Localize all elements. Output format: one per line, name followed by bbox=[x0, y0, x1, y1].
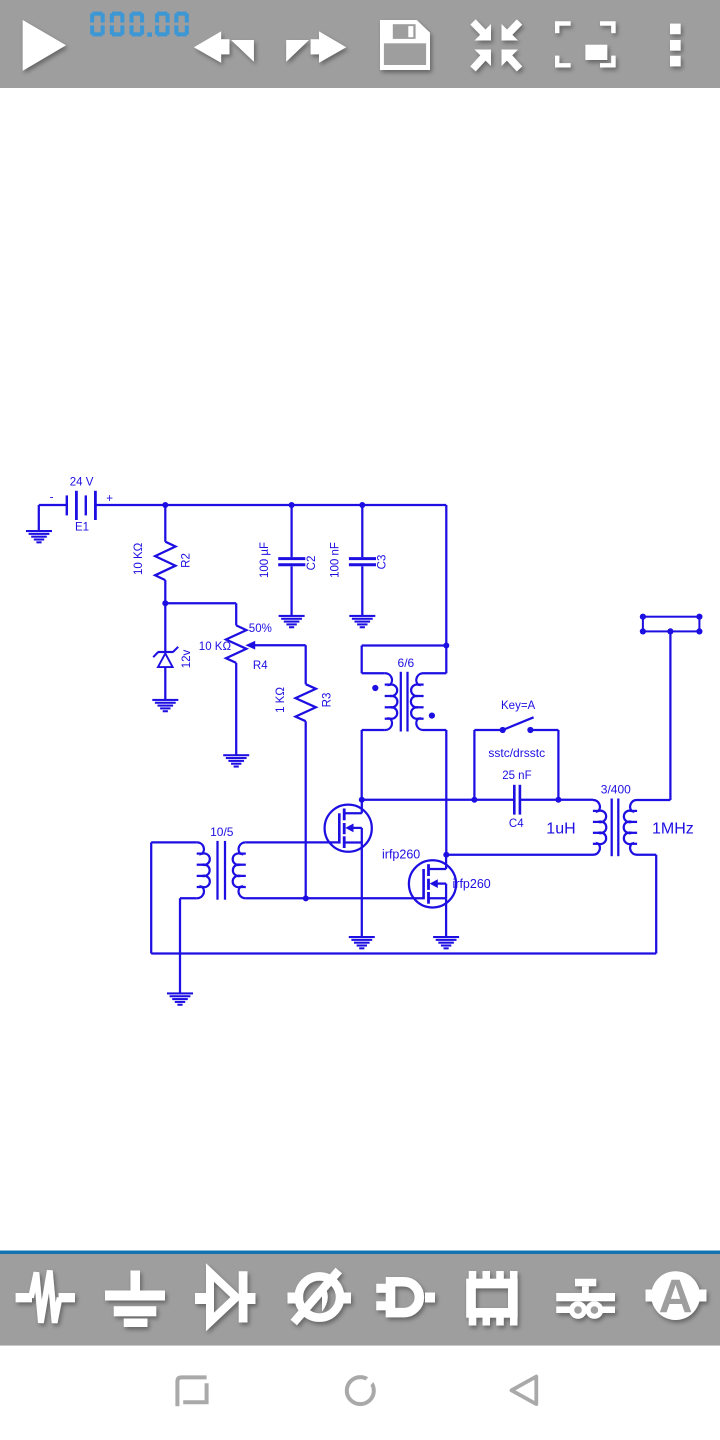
svg-text:10 KΩ: 10 KΩ bbox=[199, 641, 232, 653]
svg-text:100 nF: 100 nF bbox=[330, 542, 342, 578]
node switch right bbox=[555, 797, 561, 803]
palette resistor icon bbox=[16, 1271, 75, 1323]
svg-text:50%: 50% bbox=[249, 623, 272, 635]
transistor Q1 irfp260 bbox=[325, 805, 372, 852]
svg-text:24 V: 24 V bbox=[70, 477, 94, 489]
palette diode icon bbox=[195, 1271, 256, 1322]
node Q2 drain bbox=[443, 852, 449, 858]
svg-text:R3: R3 bbox=[321, 693, 333, 708]
nav recents button bbox=[177, 1377, 206, 1406]
zener diode D1 12v bbox=[164, 603, 166, 652]
svg-text:A: A bbox=[659, 1270, 693, 1323]
svg-text:100 µF: 100 µF bbox=[259, 542, 271, 578]
resistor R2 10 KΩ bbox=[164, 505, 166, 542]
collapse/zoom-fit button bbox=[473, 22, 520, 69]
accent line bbox=[0, 1251, 720, 1255]
bottom toolbar bbox=[0, 1254, 720, 1345]
svg-text:C3: C3 bbox=[376, 555, 388, 570]
ground (battery negative) bbox=[38, 505, 40, 531]
ground (C3) bbox=[349, 615, 375, 628]
save button bbox=[380, 20, 430, 70]
ground (C2) bbox=[279, 615, 305, 628]
undo button bbox=[194, 31, 254, 62]
svg-text:25 nF: 25 nF bbox=[502, 770, 531, 782]
wire wiper to R3 bbox=[305, 645, 307, 684]
palette ammeter icon bbox=[646, 1270, 707, 1323]
potentiometer R4 10 KΩ 50% bbox=[226, 625, 246, 663]
svg-text:C4: C4 bbox=[509, 818, 524, 830]
node topload centre bbox=[667, 628, 673, 634]
ground (zener) bbox=[152, 699, 178, 712]
nav bar separator bbox=[0, 1345, 720, 1346]
wire T2 primary bottom to ground bbox=[179, 898, 181, 993]
transformer T3 3/400 1uH/1MHz bbox=[593, 800, 606, 855]
svg-text:6/6: 6/6 bbox=[398, 656, 415, 670]
palette IC icon bbox=[469, 1271, 518, 1326]
ground (T2 primary) bbox=[167, 992, 193, 1005]
transformer T1 6/6 bbox=[362, 644, 447, 646]
ground (Q1 source) bbox=[349, 936, 375, 949]
ground (Q2 source) bbox=[433, 936, 459, 949]
node rail/T1 bbox=[443, 643, 449, 649]
palette switch icon bbox=[556, 1279, 615, 1317]
fullscreen button bbox=[555, 21, 616, 67]
wire bottom rail bbox=[151, 952, 656, 954]
node battery/R2 bbox=[162, 502, 168, 508]
wire Q2 drain stub bbox=[445, 855, 447, 869]
topload electrode bbox=[643, 617, 700, 632]
capacitor C3 100 nF bbox=[361, 505, 363, 557]
svg-text:1 KΩ: 1 KΩ bbox=[275, 687, 287, 713]
palette ground icon bbox=[105, 1271, 165, 1328]
svg-text:sstc/drsstc: sstc/drsstc bbox=[488, 746, 545, 760]
node rail/C2 bbox=[289, 502, 295, 508]
wire Q1 drain stub bbox=[361, 800, 363, 814]
ground (potentiometer) bbox=[223, 754, 249, 767]
svg-text:3/400: 3/400 bbox=[601, 782, 631, 796]
svg-text:1MHz: 1MHz bbox=[652, 821, 694, 838]
wire Q1 source bbox=[361, 843, 363, 937]
capacitor C2 100 µF bbox=[290, 505, 292, 557]
T1 polarity dot secondary bbox=[429, 713, 435, 719]
switch Key=A bbox=[473, 730, 475, 800]
simulation time display 000.00 bbox=[90, 12, 189, 37]
svg-text:E1: E1 bbox=[75, 522, 89, 534]
redo button bbox=[286, 31, 346, 62]
battery E1 bbox=[39, 504, 67, 506]
palette gate icon bbox=[376, 1282, 435, 1313]
wire rail to transformer T1 bbox=[445, 505, 447, 646]
node R2/zener/R4 bbox=[162, 600, 168, 606]
wire top rail bbox=[95, 504, 446, 506]
svg-text:R2: R2 bbox=[181, 553, 193, 568]
nav home button bbox=[347, 1377, 374, 1404]
wire rail to T2 primary top bbox=[150, 842, 152, 953]
wire secondary bottom to ground rail bbox=[655, 855, 657, 954]
palette source icon bbox=[288, 1271, 352, 1323]
svg-text:12v: 12v bbox=[181, 649, 193, 668]
wire node to potentiometer bbox=[165, 602, 236, 604]
resistor R3 1 KΩ bbox=[296, 684, 316, 721]
svg-text:R4: R4 bbox=[253, 660, 268, 672]
transformer T2 10/5 bbox=[151, 841, 197, 843]
svg-text:Key=A: Key=A bbox=[501, 700, 536, 712]
wire Q2 source bbox=[445, 898, 447, 936]
node switch left bbox=[471, 797, 477, 803]
nav back button bbox=[512, 1377, 537, 1405]
play button bbox=[23, 20, 66, 71]
node Q1 drain bbox=[359, 797, 365, 803]
overflow menu button bbox=[670, 24, 681, 67]
svg-text:10/5: 10/5 bbox=[210, 825, 234, 839]
node rail/C3 bbox=[359, 502, 365, 508]
wire Q1 drain rail bbox=[362, 799, 513, 801]
svg-text:+: + bbox=[106, 493, 113, 505]
svg-text:10 KΩ: 10 KΩ bbox=[133, 542, 145, 575]
wire T1 secondary to Q2 drain bbox=[445, 730, 447, 855]
svg-text:irfp260: irfp260 bbox=[453, 877, 491, 891]
wire Q2 drain to T3 primary bbox=[446, 854, 593, 856]
svg-text:irfp260: irfp260 bbox=[382, 848, 420, 862]
node R3/T2/Q2 gate bbox=[303, 895, 309, 901]
wire T1 primary to Q1 drain bbox=[361, 730, 363, 800]
svg-text:-: - bbox=[50, 492, 54, 504]
wiper arrow bbox=[252, 644, 306, 646]
T1 polarity dot primary bbox=[372, 685, 378, 691]
wire secondary to topload bbox=[669, 631, 671, 800]
top toolbar bbox=[0, 0, 720, 88]
svg-text:C2: C2 bbox=[306, 556, 318, 571]
capacitor C4 25 nF bbox=[513, 785, 516, 815]
transistor Q2 irfp260 bbox=[409, 860, 456, 907]
svg-text:1uH: 1uH bbox=[546, 821, 575, 838]
